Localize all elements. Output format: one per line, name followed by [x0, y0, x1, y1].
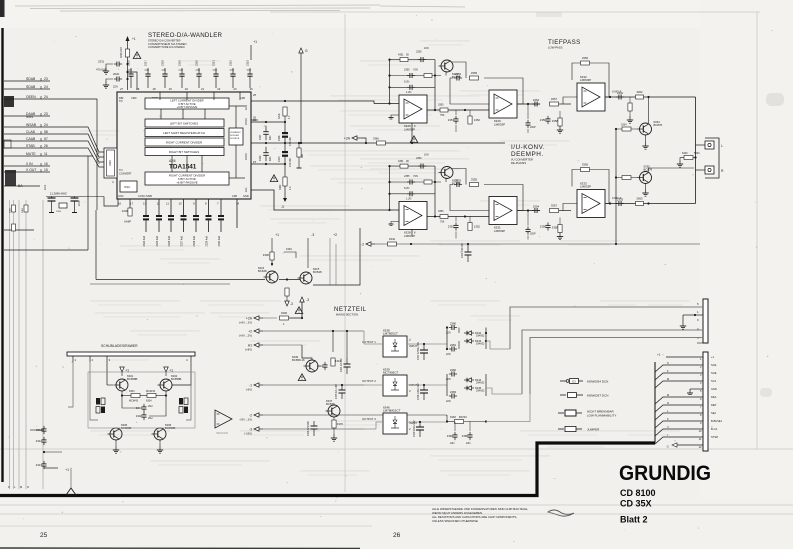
supply +2A mid — [344, 136, 361, 141]
ground upper connector — [680, 322, 686, 329]
junction 3306 — [271, 263, 273, 265]
legend symbol MSW0034 DCN — [560, 379, 608, 384]
svg-text:3334: 3334 — [621, 124, 627, 127]
svg-text:24: 24 — [44, 95, 48, 99]
TO CONVERT note — [119, 168, 132, 175]
op-amp 6326 LM833P — [399, 95, 427, 132]
wire net CLAB — [4, 133, 50, 135]
resistor 3362 L — [636, 90, 644, 99]
junction +2A — [365, 142, 367, 144]
junction 6328 input — [388, 209, 390, 211]
wire 6301 emitter — [121, 391, 123, 396]
junction 2340 bottom — [284, 163, 286, 165]
svg-text:CURRENT: CURRENT — [230, 132, 241, 134]
capacitor 2385 — [462, 432, 473, 440]
junction dio 333 — [485, 332, 487, 334]
svg-text:SDAB: SDAB — [26, 85, 36, 89]
svg-text:6348: 6348 — [450, 415, 456, 419]
resistor 3363 R — [636, 197, 644, 206]
junction output mid — [694, 156, 696, 158]
svg-text:X OUT: X OUT — [26, 168, 36, 172]
svg-text:LOW FLAMMABILITY: LOW FLAMMABILITY — [587, 413, 616, 417]
svg-text:16: 16 — [118, 202, 122, 206]
wire drawer pin4 down — [186, 362, 191, 420]
svg-text:2313: 2313 — [36, 463, 43, 467]
connector pin L — [705, 141, 714, 149]
wire fan to pin y=405 — [655, 405, 703, 412]
resistor 4351 6326 — [400, 58, 408, 62]
svg-text:18: 18 — [152, 87, 156, 91]
svg-text:23: 23 — [233, 87, 237, 91]
svg-text:2N2: 2N2 — [148, 417, 153, 420]
wire to 6332 — [559, 103, 571, 105]
junction fb left 6328 59.6 — [388, 165, 390, 167]
voltage regulator 6339 MC7906CT — [383, 367, 407, 396]
svg-text:TDA1541: TDA1541 — [169, 164, 197, 171]
wire cap bridge b — [149, 396, 166, 417]
svg-text:STAB: STAB — [26, 144, 35, 148]
svg-text:2378 100U/16V: 2378 100U/16V — [417, 383, 420, 400]
wire supply bus line 3 — [530, 338, 703, 395]
svg-text:360: 360 — [301, 153, 304, 158]
junction 6328 out node — [464, 215, 466, 217]
wire net SDAB — [4, 80, 50, 82]
wire feedback right bus 6328 — [434, 166, 436, 216]
wire 6348 to bus — [486, 394, 530, 422]
wire 6328 power stub — [411, 230, 413, 236]
resistor 360 — [297, 148, 301, 157]
capacitor 2318 top row — [161, 60, 168, 88]
wire OEEN to rail elbow — [95, 210, 97, 280]
svg-text:22N: 22N — [466, 442, 471, 445]
svg-text:+1: +1 — [65, 468, 69, 472]
wire 6321 emitter — [445, 71, 447, 76]
capacitor 2322 top row — [229, 60, 236, 88]
wire supply bus line 1 — [510, 307, 703, 349]
wire +1b — [165, 372, 167, 376]
wire fb row2 6326 — [390, 75, 442, 77]
pen swirl mark — [548, 510, 574, 516]
wire pin26 short rail — [251, 121, 285, 123]
wire 6337 emitter — [333, 417, 335, 420]
wire 6338 in rail — [407, 343, 447, 345]
capacitor 2378 100u/16V — [417, 383, 428, 400]
svg-text:M: M — [667, 377, 669, 381]
svg-text:1.2N: 1.2N — [406, 198, 411, 201]
scan ghost texture (not labelled further) — [80, 40, 690, 476]
resistor 3300 — [280, 311, 289, 320]
wire to 6329 — [450, 109, 489, 111]
svg-text:60N: 60N — [269, 156, 272, 161]
svg-text:26: 26 — [393, 532, 401, 539]
capacitor 2319 top row — [178, 60, 185, 88]
wire left bus vertical 3 — [18, 200, 20, 489]
svg-text:2377 4700U/16V: 2377 4700U/16V — [417, 342, 420, 360]
wire chain down — [284, 164, 286, 177]
junction 6328 output — [434, 215, 436, 217]
svg-text:2319: 2319 — [178, 60, 182, 66]
capacitor 2215 crystal — [71, 197, 82, 213]
svg-text:X IN: X IN — [26, 162, 33, 166]
TDA1541 pin 26 stub — [251, 119, 258, 121]
transistor 6302 BC858B — [158, 374, 182, 391]
wire drawer pin4 to 6302 — [172, 362, 191, 385]
net OEEN tick — [40, 96, 42, 99]
capacitor 2344 47u/6V — [340, 358, 351, 374]
resistor 3382 — [283, 177, 287, 186]
ground lower connector pin5 — [687, 389, 703, 395]
wire 1352 6328 — [469, 217, 471, 223]
right margin smudge 1 — [766, 93, 784, 106]
junction fb right 6326 — [434, 74, 436, 76]
supply A1 netzteil — [245, 343, 263, 352]
wire 3307 tail — [286, 296, 288, 301]
capacitor 2381 22N — [449, 343, 457, 352]
arrow -3 mid chain — [281, 198, 287, 209]
capacitor 2325 below IC — [156, 199, 162, 246]
svg-text:2350: 2350 — [416, 51, 422, 54]
svg-text:-3: -3 — [306, 298, 309, 302]
wire +2 bend — [363, 331, 365, 344]
svg-text:BC558: BC558 — [326, 402, 335, 406]
svg-text:-3: -3 — [311, 233, 314, 237]
svg-text:OSC: OSC — [118, 194, 124, 198]
wire drop to spike — [70, 468, 72, 488]
svg-text:2375 47u/16V: 2375 47u/16V — [335, 384, 338, 399]
wire 2351b 6326 — [455, 125, 457, 132]
svg-text:22N: 22N — [446, 400, 451, 403]
bottom faint line above page numbers — [0, 525, 372, 527]
wire data line 1 to TDA1541 — [50, 127, 104, 152]
legend symbol NICHT BRENNBAR — [558, 409, 616, 417]
junction fb left 6326 87.3 — [388, 86, 390, 88]
svg-text:6340: 6340 — [682, 152, 688, 155]
wire +2 drop a — [329, 238, 331, 285]
net CLAB tick — [40, 131, 42, 134]
svg-text:LM833P: LM833P — [404, 128, 415, 132]
wire 6304-6302 — [156, 395, 166, 397]
wire 3376 tail — [333, 428, 335, 434]
svg-text:15: 15 — [44, 168, 48, 172]
svg-text:WSAB: WSAB — [26, 123, 37, 127]
capacitor 2340 470/16V — [278, 143, 292, 167]
svg-text:2338: 2338 — [278, 135, 281, 141]
svg-text:15: 15 — [253, 160, 257, 164]
svg-text:3402: 3402 — [10, 207, 12, 213]
ground 6305 — [113, 446, 119, 453]
capacitor 2354 6329 — [532, 98, 540, 107]
svg-text:22N: 22N — [450, 442, 455, 445]
junction 2377 — [423, 343, 425, 345]
capacitor 2321 top row — [212, 60, 219, 88]
svg-text:CONVERTITORE D/A STEREO: CONVERTITORE D/A STEREO — [148, 45, 185, 49]
component hatched pair right — [179, 398, 188, 413]
svg-text:2K: 2K — [406, 160, 409, 163]
svg-text:25: 25 — [40, 532, 48, 539]
junction R out — [647, 202, 649, 204]
drawer pin numbers — [75, 358, 189, 362]
resistor 3307 — [285, 288, 289, 296]
connector audio out bracket — [705, 138, 719, 178]
arrow -3 below mute — [285, 301, 289, 306]
wire 6335 collector — [649, 168, 695, 172]
capacitor 2356 6333 — [540, 222, 551, 230]
wire to +1 — [44, 451, 62, 453]
wire to L pin — [696, 144, 706, 146]
net MUTE tick — [40, 153, 42, 156]
wire osc pin — [129, 199, 131, 208]
capacitor 2384 — [447, 432, 458, 440]
svg-text:SCHUBLADE/DRAWER: SCHUBLADE/DRAWER — [101, 344, 138, 348]
TDA1541 top pin numbers — [120, 87, 253, 91]
wire 6329 out — [517, 103, 540, 105]
capacitor 2020 — [114, 77, 122, 82]
wire 2313 to +1 — [44, 467, 58, 469]
wire pin stub last — [697, 342, 703, 344]
svg-text:2383: 2383 — [450, 390, 457, 394]
wire 6331 in jog — [488, 211, 490, 217]
svg-text:3316 22R: 3316 22R — [120, 47, 123, 58]
svg-text:3300: 3300 — [281, 311, 288, 315]
ground 6306 — [157, 446, 163, 453]
wire -2 to 6348 — [446, 415, 448, 422]
wire dio a — [458, 328, 460, 334]
junction left caps — [43, 451, 45, 453]
wire 2351 6326 — [455, 110, 457, 115]
svg-text:3366: 3366 — [373, 137, 379, 141]
voltage regulator 6338 LM7805CT — [383, 328, 407, 357]
wire 6338 out — [364, 343, 383, 345]
wire to 3306 — [271, 238, 273, 252]
lower connector right-side labels — [711, 355, 723, 439]
op-amp 6328 LM833P — [399, 202, 427, 239]
TDA1541 block LEFT SHIFT REGISTER/LATCH — [145, 129, 224, 137]
junction 2375 — [341, 384, 343, 386]
svg-text:16: 16 — [44, 162, 48, 166]
diode 6344 1N4002 — [464, 378, 482, 382]
wire 6346 out a — [364, 428, 376, 430]
wire 6330 collector — [452, 169, 466, 185]
svg-text:LOW-PASS: LOW-PASS — [548, 46, 563, 50]
svg-text:L: L — [721, 144, 723, 148]
capacitor 2332 output L — [616, 91, 624, 100]
net STAB tick — [40, 145, 42, 148]
svg-text:24: 24 — [44, 123, 48, 127]
capacitor 2323 top row — [246, 60, 253, 88]
svg-text:MAINS SECTION: MAINS SECTION — [336, 313, 358, 317]
svg-text:LSB: LSB — [232, 194, 237, 198]
wire 6301-6303 — [122, 395, 131, 397]
resistor 3357 6329 — [550, 97, 559, 106]
wire +2 drop b — [335, 244, 337, 285]
transistor 6301 BC858B — [114, 374, 138, 391]
wire 2020 to ground — [106, 79, 113, 81]
svg-text:3358: 3358 — [552, 119, 559, 123]
resistor fb 6332 — [581, 56, 590, 65]
svg-text:21: 21 — [201, 87, 205, 91]
net SDAB tick — [40, 78, 42, 81]
wire fan to pin y=429 — [655, 429, 703, 436]
net DAAB tick — [40, 113, 42, 116]
wire base R — [631, 177, 637, 179]
wire fan to pin y=421 — [655, 421, 703, 428]
wire +2A to -3 arrow — [289, 302, 302, 318]
wire to 6331 — [450, 216, 489, 218]
wire 6303-6304 — [140, 395, 147, 397]
wire +2 rail — [263, 330, 364, 332]
lower connector pin numbers — [699, 357, 702, 449]
capacitor 2316 top row — [127, 60, 134, 88]
svg-text:RIGHT CURRENT DIVIDER: RIGHT CURRENT DIVIDER — [166, 141, 202, 145]
junction 2379 — [419, 421, 421, 423]
capacitor 2356 6332 — [540, 116, 551, 124]
resistor fb 6333 — [581, 163, 590, 172]
wire into 6326 inverting input — [374, 103, 399, 105]
svg-text:+2A: +2A — [344, 136, 351, 140]
svg-text:1352: 1352 — [474, 225, 481, 229]
svg-text:HEF40106: HEF40106 — [216, 432, 229, 435]
svg-text:2350: 2350 — [416, 157, 422, 160]
capacitor 2383 22N — [449, 390, 457, 399]
svg-text:3357: 3357 — [551, 204, 558, 208]
svg-text:2331: 2331 — [98, 60, 105, 64]
svg-text:M: M — [20, 485, 22, 489]
wire 1352 6326 — [469, 110, 471, 116]
wire dio net right a — [485, 328, 487, 350]
legend symbol MSW026T DCN — [560, 393, 608, 398]
capacitor 2214 crystal — [44, 184, 56, 212]
svg-text:2327 4u6: 2327 4u6 — [181, 235, 184, 246]
svg-text:OEEN: OEEN — [26, 95, 36, 99]
junction mute rail — [615, 243, 617, 245]
warning triangle pin27 — [133, 52, 141, 59]
supply +1 arrow at pin 27 — [126, 36, 136, 41]
svg-text:1352: 1352 — [474, 118, 481, 122]
wire left bus vertical 5 — [42, 200, 44, 489]
wire 3318 tail — [284, 116, 286, 122]
svg-text:3306: 3306 — [263, 253, 270, 257]
drawer inner wire box — [88, 372, 195, 428]
svg-text:28: 28 — [136, 87, 140, 91]
svg-text:3356: 3356 — [582, 163, 589, 167]
wire left link rail 250 — [4, 249, 88, 251]
svg-text:VDDR: VDDR — [245, 118, 248, 125]
svg-text:MC7906CT: MC7906CT — [383, 371, 399, 375]
capacitor 2333 output R — [616, 197, 624, 206]
wire 6339 out — [364, 384, 383, 386]
wire fb 6329 — [484, 78, 523, 104]
wire +1a — [121, 372, 123, 376]
junction 360 — [298, 142, 300, 144]
wire dio net left b — [446, 374, 448, 396]
svg-text:12: 12 — [157, 202, 161, 206]
wire fb row1 6328 — [390, 165, 436, 167]
svg-text:BC858B: BC858B — [171, 377, 182, 381]
wire net OEEN — [4, 98, 50, 100]
TDA1541 block CURRENT DIVIDER SOURCE — [229, 128, 243, 145]
svg-text:58: 58 — [44, 130, 48, 134]
svg-text:DE-PHASIS: DE-PHASIS — [511, 161, 526, 165]
svg-text:-3: -3 — [290, 302, 293, 306]
drawer pin ticks — [73, 356, 191, 362]
svg-text:CLAB: CLAB — [26, 130, 36, 134]
capacitor 2375 47u/16V — [335, 384, 346, 399]
svg-text:CD 35X: CD 35X — [620, 499, 652, 509]
resistor 2209 osc — [122, 208, 132, 216]
op-amp 6329 LM833P — [489, 90, 517, 127]
svg-text:3318: 3318 — [278, 113, 281, 119]
wire 2357 6329 dn — [527, 129, 529, 133]
svg-text:2384: 2384 — [447, 434, 454, 438]
wire left link 1 — [4, 229, 34, 231]
svg-text:0.047uF: 0.047uF — [612, 89, 622, 93]
resistor fb 6331 — [470, 178, 479, 187]
wire 2384 up — [454, 422, 456, 432]
wire dio to bus 1 — [486, 341, 510, 349]
svg-text:LM833P: LM833P — [494, 229, 505, 233]
junction 2344 rail — [346, 330, 348, 332]
svg-text:B-CA: B-CA — [711, 427, 717, 431]
svg-text:3350: 3350 — [438, 210, 444, 213]
wire 360 tail — [298, 157, 300, 168]
TDA1541 block RIGHT CURRENT DIVIDER mid — [145, 138, 224, 146]
capacitor 2352 fb 6326 — [407, 85, 415, 90]
capacitor 2346 470/25V — [307, 421, 318, 436]
wire 6340 join — [693, 157, 696, 159]
supply +2A netzteil — [239, 316, 263, 325]
capacitor 2328 below IC — [193, 199, 199, 246]
transistor mute 6330 BC858 — [439, 167, 461, 186]
svg-text:2339: 2339 — [259, 155, 262, 161]
wire data line 4 to TDA1541 — [50, 148, 104, 167]
svg-text:2N2: 2N2 — [148, 405, 153, 408]
svg-text:3357: 3357 — [551, 97, 558, 101]
TDA1541 block LEFT CURRENT DIVIDER — [145, 98, 229, 109]
wire net X IN — [4, 165, 50, 167]
svg-text:GRUNDIG: GRUNDIG — [619, 461, 711, 485]
junction 2339 bottom — [265, 163, 267, 165]
wire -1 rail — [263, 384, 364, 386]
wire 6331 out — [517, 210, 540, 212]
wire riser at thick line — [654, 362, 656, 443]
supply -1 netzteil — [246, 383, 263, 392]
svg-text:24: 24 — [44, 85, 48, 89]
svg-text:JUMPER: JUMPER — [587, 427, 600, 431]
svg-text:2320: 2320 — [195, 60, 199, 66]
ground 6333 network — [557, 233, 563, 240]
capacitor 2313 — [36, 461, 47, 469]
svg-text:LEFT SHIFT REGISTER/LATCH: LEFT SHIFT REGISTER/LATCH — [163, 131, 205, 135]
supply +2 netzteil — [239, 329, 263, 338]
TDA1541 left DATA input boxes — [104, 148, 117, 178]
svg-text:2382: 2382 — [450, 368, 457, 372]
svg-text:5600: 5600 — [694, 152, 700, 155]
junction 6326 power — [411, 142, 413, 144]
wire 6316-6317 — [279, 279, 300, 281]
wire drawer pin1 down — [68, 362, 73, 407]
capacitor 2380 22N — [449, 321, 457, 330]
svg-text:4351: 4351 — [398, 160, 404, 163]
capacitor 2317 top row — [144, 60, 151, 88]
wire 360 top — [298, 143, 300, 148]
svg-text:11: 11 — [166, 202, 169, 206]
svg-text:GND: GND — [243, 194, 249, 198]
wire drawer pin3 down — [106, 362, 108, 385]
resistor 3342 — [388, 237, 397, 246]
svg-text:2316: 2316 — [127, 60, 131, 66]
junction 6326 output — [434, 109, 436, 111]
resistor 3366 — [377, 141, 386, 145]
